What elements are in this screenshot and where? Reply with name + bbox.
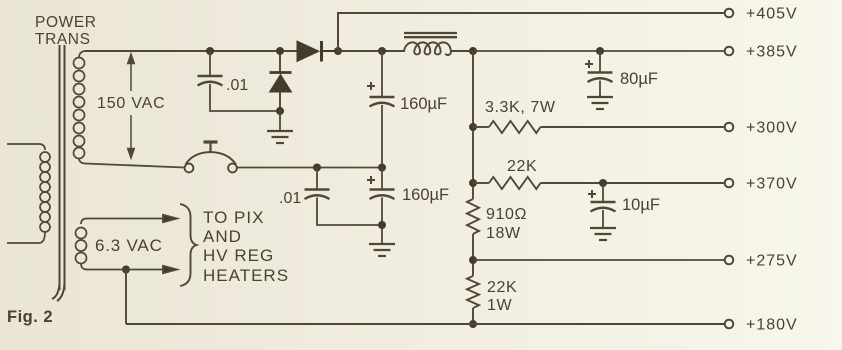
transformer secondary 6.3 VAC winding xyxy=(76,219,88,270)
svg-text:6.3 VAC: 6.3 VAC xyxy=(95,236,163,255)
svg-text:.01: .01 xyxy=(226,77,248,94)
node: C2 160uF top xyxy=(378,47,386,55)
capacitor C2 160uF xyxy=(367,82,375,90)
svg-text:22K: 22K xyxy=(507,158,537,175)
svg-text:TO PIX: TO PIX xyxy=(203,208,264,227)
resistor R2 22K xyxy=(473,177,725,189)
svg-text:AND: AND xyxy=(203,227,242,246)
svg-text:+275V: +275V xyxy=(746,253,798,270)
transformer secondary 150 VAC winding xyxy=(74,51,87,164)
label POWER TRANS xyxy=(35,14,97,48)
inductor L1 filter choke xyxy=(404,33,473,55)
label 150 VAC with dimension arrows xyxy=(128,54,135,158)
wire junction to bottom rail xyxy=(125,270,127,325)
node: +275V tap xyxy=(469,256,477,264)
svg-text:910Ω: 910Ω xyxy=(486,206,527,223)
svg-text:.01: .01 xyxy=(279,190,301,207)
svg-text:80µF: 80µF xyxy=(620,70,658,88)
ground (C6) xyxy=(590,228,616,240)
wire D2 to choke xyxy=(338,50,405,52)
wire +385V xyxy=(473,50,725,52)
node: .01 cap top junction xyxy=(206,47,214,55)
terminal +180V xyxy=(725,320,734,329)
svg-text:18W: 18W xyxy=(486,225,521,242)
terminal +300V xyxy=(725,123,734,132)
svg-text:+180V: +180V xyxy=(746,317,798,334)
node: heater/bottom-rail junction xyxy=(122,266,130,274)
label TO PIX AND HV REG HEATERS xyxy=(203,208,289,285)
svg-text:POWER: POWER xyxy=(35,14,97,31)
svg-text:+300V: +300V xyxy=(746,120,798,137)
svg-text:HEATERS: HEATERS xyxy=(203,266,289,285)
node: series diode anode junction xyxy=(276,47,284,55)
svg-text:1W: 1W xyxy=(487,297,512,314)
capacitor C4 .01 xyxy=(316,168,318,190)
svg-text:HV REG: HV REG xyxy=(203,246,274,265)
wire to +405V rail xyxy=(338,13,725,51)
resistor R3 910ohm 18W (vertical) xyxy=(467,199,479,234)
wire bottom rail +180V xyxy=(126,323,725,325)
terminal +370V xyxy=(725,179,734,188)
wire 150VAC top xyxy=(85,50,297,52)
capacitor C6 10uF xyxy=(588,190,596,198)
resistor R4 22K 1W (vertical) xyxy=(467,276,479,308)
svg-text:10µF: 10µF xyxy=(622,196,660,214)
svg-text:22K: 22K xyxy=(487,279,517,296)
node: 10uF tap xyxy=(599,179,607,187)
resistor R1 3.3K 7W xyxy=(473,121,725,133)
svg-text:150 VAC: 150 VAC xyxy=(97,95,165,112)
vertical divider bus xyxy=(472,51,474,324)
svg-text:Fig. 2: Fig. 2 xyxy=(7,308,53,326)
wire C1 bottom to diode junction xyxy=(210,84,280,111)
svg-text:160µF: 160µF xyxy=(400,95,447,113)
capacitor C5 160uF xyxy=(367,176,375,184)
wire +275V xyxy=(473,259,725,261)
ground (C3) xyxy=(587,97,613,109)
svg-text:3.3K, 7W: 3.3K, 7W xyxy=(485,99,556,116)
transformer T1 core xyxy=(52,45,65,301)
node: .01 #2 top xyxy=(313,164,321,172)
node: choke output / bus top xyxy=(469,47,477,55)
svg-text:+405V: +405V xyxy=(746,6,798,23)
ground (D1) xyxy=(279,111,281,131)
terminal +405V xyxy=(725,9,734,18)
svg-text:160µF: 160µF xyxy=(402,186,449,204)
transformer primary winding xyxy=(7,144,50,243)
switch S1 push-button xyxy=(85,142,237,172)
node: 22K tap xyxy=(469,179,477,187)
node: D1 anode junction xyxy=(276,107,284,115)
wire switch to caps row xyxy=(237,167,382,169)
terminal +385V xyxy=(725,47,734,56)
node: bottom rail tap xyxy=(469,320,477,328)
node: 160uF #2 top xyxy=(378,164,386,172)
capacitor C3 80uF xyxy=(585,60,593,68)
node: 3.3K tap xyxy=(469,123,477,131)
diode D2 rectifier (pointing right) xyxy=(297,41,338,62)
wire 6.3VAC top arrow xyxy=(86,215,177,222)
svg-text:TRANS: TRANS xyxy=(35,31,91,48)
diode D1 shunt (cathode up) xyxy=(270,51,292,112)
terminal +275V xyxy=(725,256,734,265)
ground (C4/C5) xyxy=(369,244,395,256)
node: 80uF tap xyxy=(596,47,604,55)
brace to heaters xyxy=(180,204,197,286)
svg-text:+370V: +370V xyxy=(746,176,798,193)
svg-text:+385V: +385V xyxy=(746,44,798,61)
node: cap bottoms junction xyxy=(378,221,386,229)
node: rail tap after D2 xyxy=(334,47,342,55)
capacitor C1 .01 xyxy=(209,51,211,76)
wire 6.3VAC bottom arrow xyxy=(86,266,177,273)
